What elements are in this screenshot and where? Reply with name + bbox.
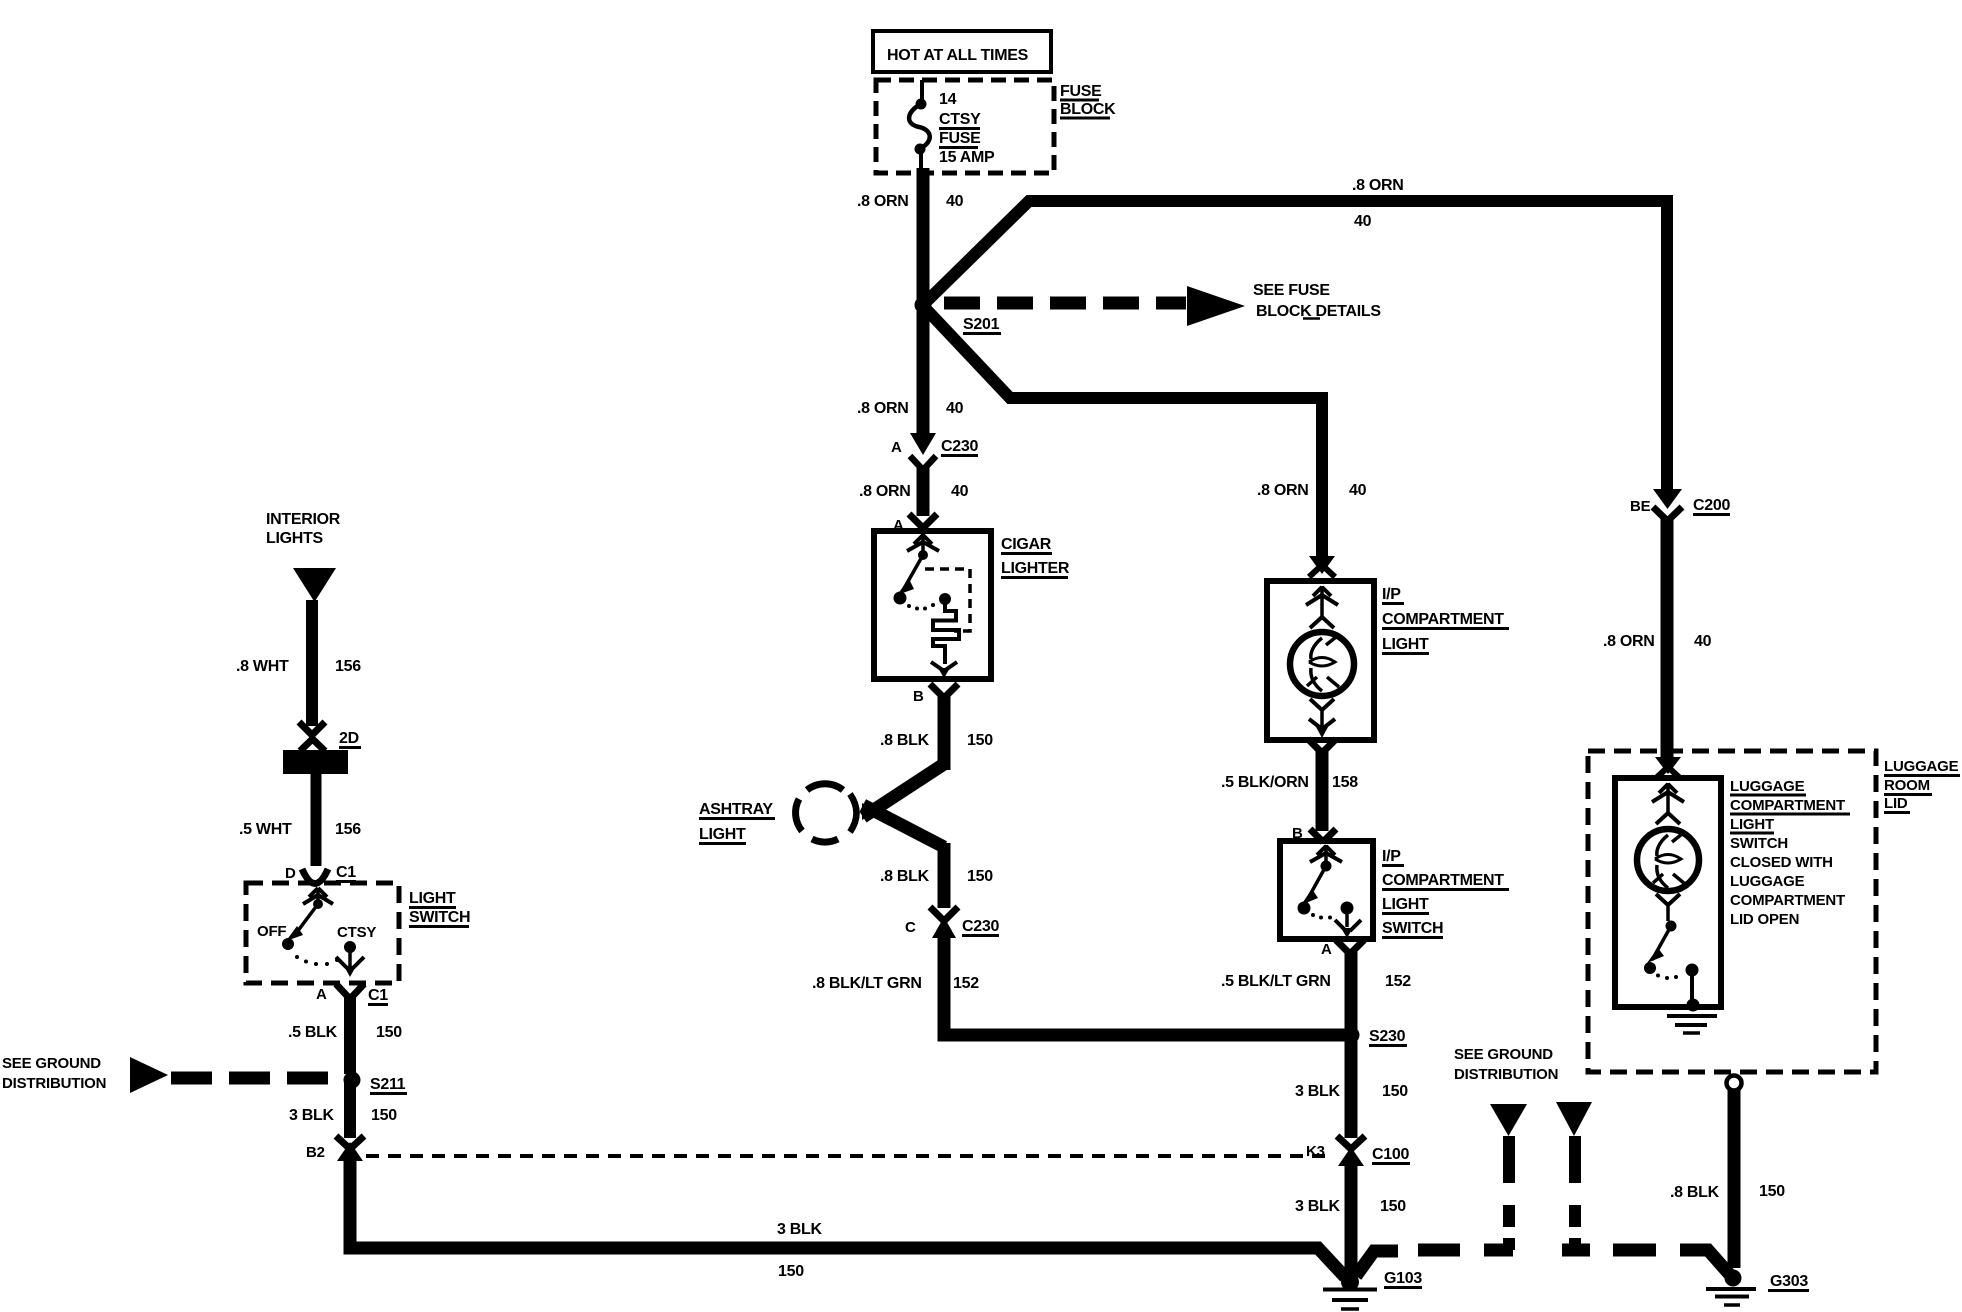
label CIGAR LIGHTER (1001, 536, 1070, 578)
svg-text:COMPARTMENT: COMPARTMENT (1382, 611, 1504, 628)
svg-text:HOT AT ALL TIMES: HOT AT ALL TIMES (887, 47, 1029, 64)
svg-text:40: 40 (1354, 213, 1372, 230)
wire B2 to G103 3 BLK 150 (350, 1157, 1345, 1280)
ground distribution triangle 2 (1556, 1102, 1592, 1136)
dashed ground wire 1 (1484, 1136, 1513, 1250)
svg-text:.5 BLK/ORN: .5 BLK/ORN (1221, 774, 1309, 791)
dashed arrow to fuse block details (944, 282, 1381, 326)
I/P compartment light switch box (1280, 841, 1373, 939)
svg-text:.8 WHT: .8 WHT (236, 658, 289, 675)
thin dashed line B2 to C100 (366, 1154, 1334, 1158)
svg-text:3 BLK: 3 BLK (777, 1221, 822, 1238)
ashtray light lamp (796, 784, 857, 842)
wire C100 to G103 3 BLK 150 (1295, 1162, 1406, 1278)
fuse F14 CTSY FUSE 15 AMP (909, 80, 995, 173)
svg-text:G303: G303 (1770, 1273, 1808, 1290)
wire C230 to cigar lighter .8 ORN 40 (859, 468, 969, 516)
connector C1 terminal A bottom of switch (1321, 940, 1364, 958)
I/P switch terminal B connector (1292, 825, 1336, 842)
svg-text:SEE GROUND: SEE GROUND (1454, 1046, 1553, 1063)
svg-text:.5 BLK: .5 BLK (288, 1024, 338, 1041)
wire luggage case to G303 .8 BLK 150 (1670, 1090, 1785, 1268)
light switch dashed box (246, 883, 399, 983)
I/P light connector bottom (1308, 739, 1336, 753)
wire ashtray to C230 .8 BLK 150 (880, 843, 993, 908)
label ASHTRAY LIGHT (699, 801, 775, 844)
svg-text:156: 156 (335, 821, 361, 838)
svg-text:S230: S230 (1369, 1028, 1406, 1045)
light switch internals OFF / CTSY (257, 888, 376, 977)
svg-text:C: C (905, 919, 916, 936)
svg-text:LIGHT: LIGHT (1382, 896, 1429, 913)
svg-text:LUGGAGE: LUGGAGE (1730, 778, 1805, 795)
svg-text:LIGHT: LIGHT (1730, 816, 1774, 833)
svg-text:.5 BLK/LT GRN: .5 BLK/LT GRN (1221, 973, 1331, 990)
svg-text:.8 ORN: .8 ORN (1257, 482, 1309, 499)
cigar lighter element internals (894, 534, 971, 678)
svg-text:150: 150 (1382, 1083, 1408, 1100)
wire C200 to luggage box .8 ORN 40 (1603, 519, 1712, 758)
wire S201 down to C230 .8 ORN 40 (857, 311, 964, 436)
svg-text:LIGHTS: LIGHTS (266, 530, 323, 547)
svg-text:.8 ORN: .8 ORN (857, 400, 909, 417)
svg-text:LUGGAGE: LUGGAGE (1884, 758, 1959, 775)
svg-text:150: 150 (967, 732, 993, 749)
svg-text:40: 40 (946, 400, 964, 417)
connector C100 terminal K3 (1306, 1136, 1410, 1166)
svg-text:I/P: I/P (1382, 586, 1401, 603)
svg-text:.8 BLK: .8 BLK (880, 732, 930, 749)
svg-text:150: 150 (967, 868, 993, 885)
luggage light bulb and switch internals (1637, 783, 1717, 1033)
ground G303 (1706, 1270, 1809, 1306)
case ground ring terminal (1727, 1076, 1742, 1091)
wire 2D to light switch .5 WHT 156 (239, 774, 361, 866)
svg-text:SWITCH: SWITCH (1730, 835, 1788, 852)
dashed ground wire 2 (1562, 1136, 1590, 1250)
svg-text:3 BLK: 3 BLK (289, 1107, 334, 1124)
connector C200 terminal BE (1630, 489, 1730, 521)
connector B2 (306, 1136, 364, 1161)
svg-text:SWITCH: SWITCH (1382, 920, 1443, 937)
label box HOT AT ALL TIMES (873, 31, 1051, 72)
svg-text:LUGGAGE: LUGGAGE (1730, 873, 1805, 890)
svg-text:3 BLK: 3 BLK (1295, 1198, 1340, 1215)
wire I/P light to switch .5 BLK/ORN 158 (1221, 751, 1358, 831)
svg-text:COMPARTMENT: COMPARTMENT (1382, 872, 1504, 889)
wire lower branch S201 to I/P light .8 ORN 40 (926, 309, 1367, 557)
dashed ground bus G103 to G303 (1356, 1250, 1731, 1276)
svg-text:K3: K3 (1306, 1143, 1325, 1160)
I/P switch internals (1298, 845, 1362, 938)
svg-text:ROOM: ROOM (1884, 777, 1930, 794)
svg-text:A: A (1321, 941, 1332, 958)
interior lights reference triangle (293, 568, 336, 602)
connector C230 terminal A top (891, 433, 978, 470)
wire S230 to C100 3 BLK 150 (1295, 1035, 1408, 1138)
ground distribution triangle 1 (1490, 1104, 1527, 1136)
svg-text:158: 158 (1332, 774, 1358, 791)
svg-text:S211: S211 (370, 1076, 406, 1093)
svg-text:COMPARTMENT: COMPARTMENT (1730, 892, 1845, 909)
connector C1 terminal A (316, 984, 388, 1005)
cigar lighter box (874, 531, 991, 679)
label INTERIOR LIGHTS (266, 511, 341, 547)
svg-text:14: 14 (939, 91, 957, 108)
svg-text:40: 40 (1694, 633, 1712, 650)
svg-text:150: 150 (1759, 1183, 1785, 1200)
svg-text:A: A (891, 439, 902, 456)
ground G103 (1323, 1270, 1422, 1309)
svg-text:DISTRIBUTION: DISTRIBUTION (2, 1075, 106, 1092)
splice S230 (1343, 1027, 1408, 1046)
svg-text:.8 BLK/LT GRN: .8 BLK/LT GRN (812, 975, 922, 992)
wire interior lights to 2D .8 WHT 156 (236, 600, 361, 726)
label SEE GROUND DISTRIBUTION left (2, 1055, 106, 1092)
wire light switch to S211 .5 BLK 150 (288, 997, 402, 1074)
svg-text:CIGAR: CIGAR (1001, 536, 1052, 553)
svg-text:150: 150 (371, 1107, 397, 1124)
svg-text:OFF: OFF (257, 923, 286, 940)
svg-text:SWITCH: SWITCH (409, 909, 470, 926)
svg-text:.8 ORN: .8 ORN (859, 483, 911, 500)
svg-text:COMPARTMENT: COMPARTMENT (1730, 797, 1845, 814)
svg-text:B: B (913, 688, 924, 705)
svg-text:152: 152 (953, 975, 979, 992)
svg-text:INTERIOR: INTERIOR (266, 511, 341, 528)
svg-text:150: 150 (778, 1263, 804, 1280)
svg-text:LIGHTER: LIGHTER (1001, 560, 1070, 577)
svg-text:SEE FUSE: SEE FUSE (1253, 282, 1330, 299)
svg-text:.8 ORN: .8 ORN (857, 193, 909, 210)
svg-text:LID: LID (1884, 795, 1908, 812)
wire cigar lighter to ashtray .8 BLK 150 (880, 696, 993, 770)
label LIGHT SWITCH (409, 890, 470, 927)
svg-text:15 AMP: 15 AMP (939, 149, 995, 166)
svg-text:C200: C200 (1693, 497, 1730, 514)
dashed wire to S211 (171, 1072, 344, 1085)
svg-text:.5 WHT: .5 WHT (239, 821, 292, 838)
connector C1 terminal D (285, 864, 356, 884)
label LUGGAGE ROOM LID (1884, 758, 1960, 813)
svg-text:S201: S201 (963, 316, 1000, 333)
svg-text:LIGHT: LIGHT (699, 826, 746, 843)
svg-text:C1: C1 (368, 987, 388, 1004)
splice S201 (915, 297, 1002, 334)
svg-text:CTSY: CTSY (939, 111, 981, 128)
svg-text:G103: G103 (1384, 1270, 1422, 1287)
svg-text:FUSE: FUSE (939, 130, 981, 147)
cigar lighter terminal B connector (913, 684, 958, 705)
svg-text:.8 BLK: .8 BLK (880, 868, 930, 885)
svg-text:40: 40 (951, 483, 969, 500)
wire S211 to B2 3 BLK 150 (289, 1080, 397, 1138)
I/P light terminal connector top (1309, 556, 1335, 577)
label LUGGAGE COMPARTMENT LIGHT SWITCH CLOSED WITH LUGGAGE COMPARTMENT LID OPEN (1730, 778, 1850, 928)
cigar lighter terminal A connector (893, 514, 937, 534)
svg-text:C230: C230 (962, 918, 999, 935)
fuse block bus bar (solid block) (283, 750, 348, 774)
wire switch to S230 .5 BLK/LT GRN 152 (1221, 952, 1411, 1035)
svg-text:LID OPEN: LID OPEN (1730, 911, 1799, 928)
wire fuse to S201 .8 ORN 40 (857, 168, 964, 307)
svg-text:40: 40 (946, 193, 964, 210)
svg-text:D: D (285, 865, 296, 882)
svg-text:2D: 2D (339, 730, 359, 747)
svg-text:156: 156 (335, 658, 361, 675)
fuse block dashed box (876, 80, 1054, 173)
svg-text:C230: C230 (941, 438, 978, 455)
svg-text:3 BLK: 3 BLK (1295, 1083, 1340, 1100)
svg-text:A: A (316, 986, 327, 1003)
svg-text:.8 ORN: .8 ORN (1603, 633, 1655, 650)
splice S211 (344, 1072, 408, 1094)
svg-text:B2: B2 (306, 1144, 325, 1161)
svg-text:LIGHT: LIGHT (409, 890, 456, 907)
connector 2D (299, 722, 361, 751)
connector C230 terminal C (905, 907, 999, 938)
svg-text:150: 150 (376, 1024, 402, 1041)
svg-text:BLOCK: BLOCK (1060, 101, 1116, 118)
svg-text:40: 40 (1349, 482, 1367, 499)
I/P light bulb internals (1290, 586, 1354, 738)
wire upper branch S201 to C200 .8 ORN 40 (926, 177, 1667, 492)
svg-text:ASHTRAY: ASHTRAY (699, 801, 773, 818)
wire C230 to S230 .8 BLK/LT GRN 152 (812, 936, 1348, 1035)
svg-text:C1: C1 (336, 864, 356, 881)
svg-text:CLOSED WITH: CLOSED WITH (1730, 854, 1833, 871)
ground distribution arrow left (130, 1057, 168, 1093)
I/P compartment light box (1267, 581, 1374, 740)
svg-text:LIGHT: LIGHT (1382, 636, 1429, 653)
luggage light terminal connector (1655, 757, 1681, 779)
svg-text:FUSE: FUSE (1060, 83, 1102, 100)
svg-text:BE: BE (1630, 498, 1651, 515)
luggage compartment light inner box (1615, 778, 1721, 1007)
wire V to ashtray light point (862, 764, 944, 847)
svg-text:DISTRIBUTION: DISTRIBUTION (1454, 1066, 1558, 1083)
svg-text:152: 152 (1385, 973, 1411, 990)
label SEE GROUND DISTRIBUTION right (1454, 1046, 1558, 1083)
label I/P COMPARTMENT LIGHT SWITCH (1382, 848, 1509, 938)
svg-text:150: 150 (1380, 1198, 1406, 1215)
svg-text:.8 BLK: .8 BLK (1670, 1184, 1720, 1201)
svg-text:SEE GROUND: SEE GROUND (2, 1055, 101, 1072)
svg-text:I/P: I/P (1382, 848, 1401, 865)
label I/P COMPARTMENT LIGHT (1382, 586, 1509, 654)
svg-text:CTSY: CTSY (337, 924, 376, 941)
luggage room lid dashed box (1588, 751, 1876, 1072)
svg-text:C100: C100 (1372, 1146, 1409, 1163)
svg-text:.8 ORN: .8 ORN (1352, 177, 1404, 194)
label FUSE BLOCK (1060, 83, 1116, 118)
